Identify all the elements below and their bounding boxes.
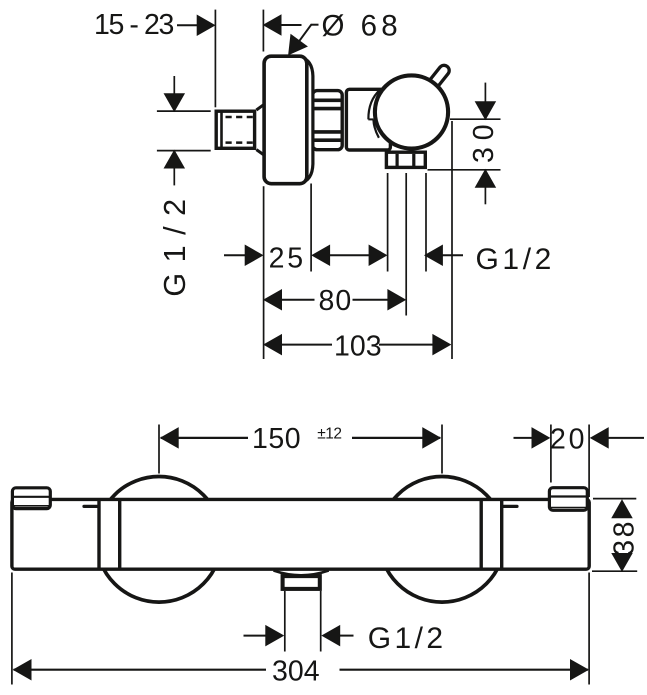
handle stem: [429, 65, 449, 87]
joint left ring: [118, 499, 121, 569]
marker dash right handle: [503, 505, 518, 508]
svg-text:G1/2: G1/2: [368, 622, 447, 655]
outlet nut bottom view: [283, 576, 320, 589]
wire extension line wall face: [214, 10, 216, 108]
wire extension line inlet bottom: [157, 150, 211, 152]
dimension G1/2 bottom: [244, 622, 447, 655]
dimension G1/2 inlet: [158, 76, 192, 297]
escutcheon circle left: [96, 477, 222, 603]
wire extension line body front: [387, 173, 389, 272]
joint right handle: [500, 499, 503, 569]
outlet nut top view: [386, 152, 425, 167]
wall union fitting: [216, 111, 254, 148]
wire extension line 30 top: [450, 118, 501, 120]
dimension 30: [468, 83, 500, 205]
svg-text:25: 25: [269, 242, 306, 274]
svg-text:103: 103: [334, 330, 382, 362]
bar body: [12, 499, 589, 569]
body crescent edge: [368, 89, 380, 119]
outlet collar arc: [274, 571, 329, 576]
marker dash left handle: [84, 505, 99, 508]
wire leader 150 left: [158, 425, 160, 474]
escutcheon dome: [301, 57, 313, 183]
wall escutcheon box right: [549, 488, 587, 511]
dimension 25: [224, 242, 387, 274]
outlet pipe left edge: [284, 591, 286, 652]
dimension 15-23: [94, 9, 302, 41]
union nut: [313, 91, 343, 150]
svg-text:304: 304: [272, 656, 320, 688]
union flare: [256, 105, 263, 155]
handle circle: [375, 75, 448, 148]
svg-text:Ø68: Ø68: [322, 9, 402, 42]
joint left handle: [97, 499, 100, 569]
wire extension line handle front: [451, 121, 453, 359]
wire extension line outlet axis: [405, 173, 407, 316]
wire extension line inlet top: [157, 110, 211, 112]
dimension 103: [264, 330, 450, 362]
dimension 20: [514, 423, 645, 497]
wire extension line escutcheon face lower: [263, 186, 265, 359]
wire extension line 30 bottom: [428, 169, 501, 171]
dimension G1/2 outlet leader: [425, 243, 555, 276]
valve body: [346, 89, 390, 150]
svg-text:15 - 23: 15 - 23: [94, 9, 173, 41]
dimension 304: [12, 573, 589, 688]
wire extension line escutcheon face upper: [262, 10, 264, 52]
svg-text:G1/2: G1/2: [158, 188, 192, 296]
dimension 80: [264, 285, 405, 317]
svg-text:80: 80: [319, 285, 353, 317]
svg-text:150: 150: [252, 423, 301, 455]
wire extension line escutcheon front: [310, 184, 312, 272]
svg-text:30: 30: [468, 117, 500, 163]
wire leader 150 right: [441, 425, 443, 474]
svg-text:G1/2: G1/2: [476, 243, 555, 276]
dimension 38: [592, 499, 641, 572]
dimension diameter 68: [281, 9, 402, 60]
svg-text:20: 20: [550, 423, 587, 455]
wire extension line outlet right: [425, 173, 427, 272]
svg-text:38: 38: [609, 519, 641, 556]
joint right ring: [480, 499, 483, 569]
svg-text:±12: ±12: [317, 425, 341, 442]
outlet pipe right edge: [320, 591, 322, 652]
wall escutcheon box left: [12, 488, 50, 509]
dimension 150 plus-minus 12: [161, 423, 440, 455]
escutcheon circle right: [379, 477, 505, 603]
escutcheon plate: [264, 56, 307, 184]
